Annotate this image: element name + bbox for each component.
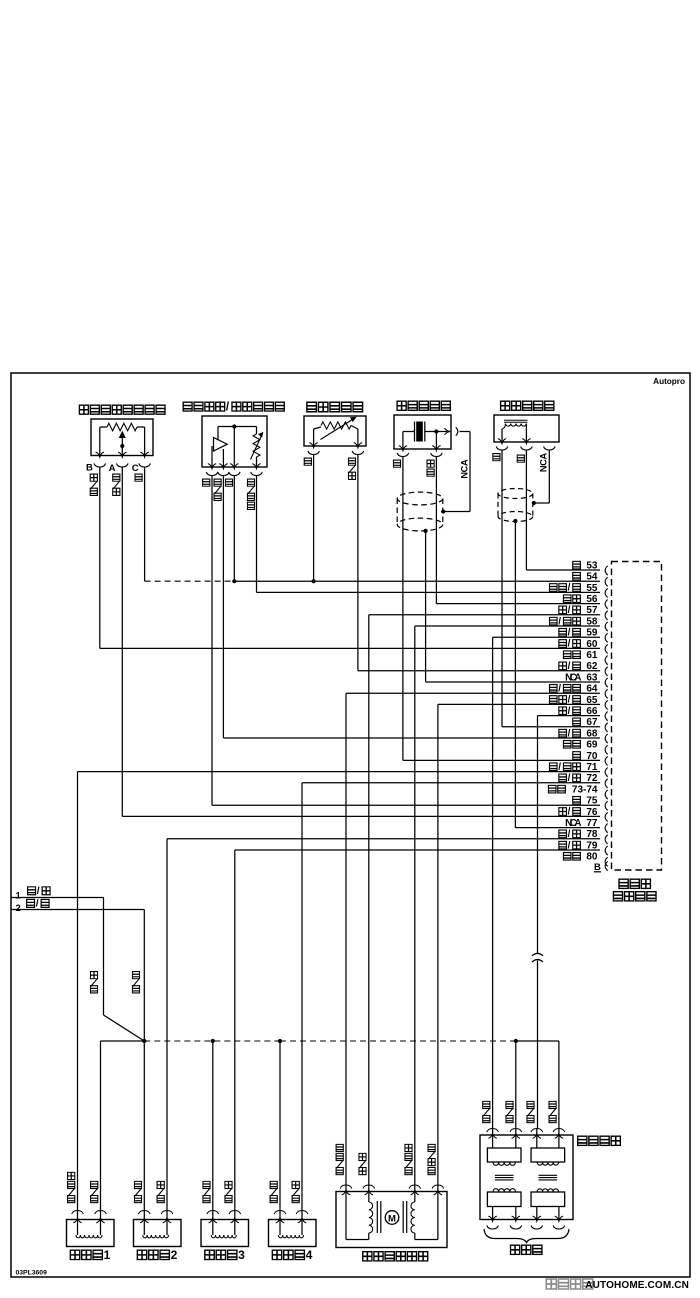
wire pin54 branch from coolant sensor pin1 xyxy=(313,455,315,582)
idle motor left winding xyxy=(346,1192,373,1240)
HV terminal arcs xyxy=(487,1225,565,1229)
svg-text:61: 61 xyxy=(586,650,598,661)
ECM pin 61 label 不用 xyxy=(563,650,598,661)
ignition coil right transformer T2 xyxy=(531,1135,565,1220)
ECM pin B label with underline xyxy=(594,862,601,873)
ECM pin 53 socket arc xyxy=(605,566,608,575)
MAP sensor U2 box xyxy=(202,416,267,467)
wire label shenlan (dark blue) xyxy=(427,460,434,476)
ECM pin 64 socket arc xyxy=(605,689,608,698)
injector 1 solenoid coil xyxy=(76,1220,102,1238)
wire pin53 red from speed sensor xyxy=(526,450,600,570)
knock sensor label (bao-zhen-chuan-gan-qi) xyxy=(397,401,450,410)
thermistor resistor inside xyxy=(314,417,358,446)
wire label hei (black) MAP pin 3 xyxy=(225,479,232,486)
ECM pin 60 socket arc xyxy=(605,644,608,653)
wire pin72 white/green to injector4 pin2 xyxy=(302,783,600,1210)
ignition coil connector sockets xyxy=(487,1129,565,1133)
coolant sensor pin arrows xyxy=(309,443,362,448)
svg-text:C: C xyxy=(539,459,549,466)
injector 3 connector sockets xyxy=(207,1211,241,1215)
shielded cable cylinder around speed sensor wires xyxy=(498,489,533,522)
MAP sensor internal top wire with junction xyxy=(218,424,257,428)
wire pin55 magenta/black from MAP pin4 xyxy=(257,476,601,593)
svg-text:Autopro: Autopro xyxy=(653,377,685,386)
idle control motor name label xyxy=(363,1252,428,1261)
wire label bai (white) xyxy=(493,453,500,460)
ECM pin 72 label 白/绿 xyxy=(559,773,598,784)
injector 2 wire stubs to box xyxy=(144,1211,167,1220)
injector 3 wire label 棕/白 xyxy=(203,1181,210,1202)
injector 2 pin arrows xyxy=(140,1218,171,1223)
ECM pin 78 socket arc xyxy=(605,835,608,844)
input wire 1 zi/huang (violet/yellow) xyxy=(11,898,144,1042)
ignition coil input pin arrows xyxy=(488,1133,563,1138)
bus drop to ignition coil pin2 xyxy=(515,1041,517,1128)
ignition coil HV output arrows xyxy=(488,1216,563,1221)
bus drop to injector4 pin1 xyxy=(279,1041,281,1210)
ECM pin 55 label 玫红/黑 xyxy=(549,583,598,594)
pressure transducer triangle xyxy=(212,427,227,468)
idle motor wire label tianlan/hei xyxy=(428,1144,435,1174)
svg-text:C: C xyxy=(132,463,139,474)
injector 3 wire label 黑/绿 xyxy=(225,1181,232,1202)
idle motor pin arrows xyxy=(342,1190,442,1195)
engine control module name label (fa-dong-ji kong-zhi-mo-kuai) xyxy=(613,879,656,901)
ECM pin 68 label 红/黑 xyxy=(559,728,598,739)
ECM pin 56 label 深蓝 xyxy=(563,594,598,605)
throttle position sensor label (jie-qi-men-wei-zhi-chuan-gan-qi) xyxy=(79,405,165,414)
wire pin79 black/green to injector3 pin2 xyxy=(235,850,600,1210)
ECM pin 70 socket arc xyxy=(605,756,608,765)
bus drop to injector3 pin1 xyxy=(212,1041,214,1210)
wire pin63 NCA from knock sensor shield drain xyxy=(426,531,600,682)
shielded cable cylinder around knock sensor wires xyxy=(397,492,443,531)
wire pin58 white/darkblue to idle motor pin3 xyxy=(415,626,600,1185)
connector sockets under coolant sensor xyxy=(308,451,364,455)
ECM pin 69 socket arc xyxy=(605,745,608,754)
injector 2 connector sockets xyxy=(139,1211,173,1215)
wire pin67 white from speed sensor pin1 xyxy=(502,450,600,727)
ECM pin 78 label 棕/绿 xyxy=(559,829,598,840)
vertical wire label zi/huang on riser xyxy=(90,971,97,992)
speed sensor pin arrows xyxy=(498,439,531,444)
coil wire label zong/bai pin4 xyxy=(549,1101,556,1122)
ECM pin 58 label 白/深蓝 xyxy=(549,616,598,627)
throttle sensor pin arrows B A C xyxy=(96,452,149,457)
wire pin76 green/black from throttle sensor A xyxy=(122,467,600,816)
svg-text:M: M xyxy=(388,1213,396,1224)
ECM pin 80 socket arc xyxy=(605,857,608,866)
injector 4 pin arrows xyxy=(276,1218,306,1223)
NCA wire to speed sensor shield xyxy=(532,450,550,505)
wire pin57 grey/green to idle motor pin2 xyxy=(369,615,600,1185)
ECM pin 62 socket arc xyxy=(605,667,608,676)
autohome watermark qi-che-zhi-jia xyxy=(546,1279,593,1289)
injector 4 name label xyxy=(272,1248,312,1262)
svg-text:4: 4 xyxy=(306,1248,313,1262)
speed sensor shield drain dot xyxy=(513,519,517,523)
splice bus brown/white to injectors and coil xyxy=(101,1040,559,1042)
wire label hong/hei (red/black) MAP pin 2 xyxy=(214,479,221,500)
ECM pin 56 socket arc xyxy=(605,600,608,609)
ECM pin 63 socket arc xyxy=(605,678,608,687)
inductive pickup coil inside speed sensor xyxy=(502,420,528,442)
ignition coil left transformer T1 xyxy=(487,1135,521,1220)
svg-text:1: 1 xyxy=(16,891,22,902)
connector sockets under MAP sensor xyxy=(206,472,262,476)
ECM pin 76 label 绿/黑 xyxy=(559,807,598,818)
idle motor right winding xyxy=(411,1192,438,1240)
svg-text:/: / xyxy=(226,401,230,413)
wire label zi (violet) xyxy=(393,460,400,467)
injector 3 box xyxy=(201,1220,249,1247)
injector 1 wire label 棕/白 xyxy=(91,1181,98,1202)
ECM pin 57 label 灰/绿 xyxy=(559,605,598,616)
ECM pin 64 label 白/玫红 xyxy=(549,683,598,694)
idle motor wire label bai/meihong xyxy=(336,1144,343,1174)
svg-text:AUTOHOME.COM.CN: AUTOHOME.COM.CN xyxy=(585,1280,689,1291)
connector sockets under speed sensor xyxy=(496,446,555,450)
svg-text:A: A xyxy=(459,459,469,466)
injector 4 solenoid coil xyxy=(279,1220,304,1238)
injector 4 box xyxy=(269,1220,317,1247)
injector 1 box xyxy=(67,1220,115,1247)
ECM pin 54 socket arc xyxy=(605,577,608,586)
input 2 color label zong/hei xyxy=(27,899,50,910)
ECM pin 71 label 黑/深蓝 xyxy=(549,762,598,773)
idle motor right core lines xyxy=(403,1201,407,1233)
ECM pin 53 label 红 xyxy=(573,560,598,571)
ECM pin 79 socket arc xyxy=(605,846,608,855)
injector 1 connector sockets xyxy=(72,1211,107,1215)
ECM pin 79 label 黑/绿 xyxy=(559,840,598,851)
svg-text:2: 2 xyxy=(16,903,21,914)
connector sockets under knock sensor xyxy=(397,453,442,457)
ignition coil name label dian-huo-xian-quan xyxy=(578,1136,621,1145)
knock sensor pin wires xyxy=(403,432,437,450)
ECM pin 68 socket arc xyxy=(605,734,608,743)
wire pin68 red/black from MAP pin2 xyxy=(223,476,600,739)
injector 2 box xyxy=(134,1220,182,1247)
air temp variable resistor xyxy=(251,427,263,468)
ECM pin 58 socket arc xyxy=(605,622,608,631)
ECM pin 80 label 不用 xyxy=(563,852,598,863)
ECM pin 77 socket arc xyxy=(605,824,608,833)
ECM pin B socket arc xyxy=(605,861,608,870)
wire label hei (black) pin C xyxy=(135,474,142,481)
MAP/intake air temp sensor label (jin-qi-ya-li/wen-du-chuan-gan-qi) xyxy=(183,401,284,413)
wire pin71 black/darkblue to injector1 pin1 xyxy=(78,772,601,1210)
high voltage lines label gao-ya-xian xyxy=(510,1245,542,1254)
ECM pin 77 label NCA xyxy=(565,818,598,829)
NCA label vertical xyxy=(459,459,469,479)
crank speed sensor label (zhuan-su-chuan-gan-qi) xyxy=(501,401,554,410)
ECM pin 75 label 棕 xyxy=(573,796,598,807)
ECM pin 63 label NCA xyxy=(565,672,598,683)
wire pin54 branch from MAP pin3 xyxy=(233,476,235,582)
wire pin70 violet from knock sensor pin1 xyxy=(403,457,600,761)
ECM pin 69 label 不用 xyxy=(563,740,598,751)
bus drop to injector1 pin2 xyxy=(100,1041,102,1210)
ECM pin 59 socket arc xyxy=(605,633,608,642)
wire label lv/hei (green/black) pin A xyxy=(113,474,120,495)
wire label hong/lv (red/green) pin B xyxy=(90,474,97,495)
idle motor wire label hui/lv xyxy=(359,1153,366,1174)
ECM pin 66 label 黄/黑 xyxy=(559,706,598,717)
wire label meihong/hei (magenta/black) MAP pin 4 xyxy=(247,479,254,509)
svg-text:69: 69 xyxy=(586,740,598,751)
frame border xyxy=(11,373,690,1277)
ECM pin 71 socket arc xyxy=(605,768,608,777)
NCA label vertical xyxy=(539,453,549,473)
injector 4 wire stubs to box xyxy=(280,1211,302,1220)
injector 4 wire label 棕/白 xyxy=(270,1181,277,1202)
wire pin78 brown/green to injector2 pin2 xyxy=(167,839,600,1210)
svg-text:C: C xyxy=(459,465,469,472)
injector 1 wire label 黑/深蓝 xyxy=(68,1172,75,1202)
ECM pin 75 socket arc xyxy=(605,801,608,810)
svg-text:A: A xyxy=(539,453,549,460)
injector 3 name label xyxy=(205,1248,245,1262)
svg-text:N: N xyxy=(539,465,549,472)
svg-text:N: N xyxy=(459,472,469,479)
wire pin62 grey/white from coolant sensor pin2 xyxy=(358,455,600,671)
vertical wire label zong/hei on riser xyxy=(132,971,139,992)
idle motor wire stubs xyxy=(346,1185,438,1192)
wire label zong (brown) MAP pin 1 xyxy=(203,479,210,486)
idle motor M symbol xyxy=(385,1211,399,1225)
wire pin56 dark blue from knock sensor xyxy=(436,457,600,604)
wire label hong (red) xyxy=(517,455,524,462)
injector 3 solenoid coil xyxy=(211,1220,236,1238)
ECM pin 70 label 紫 xyxy=(573,751,598,762)
ECM pin 67 label 白 xyxy=(573,717,598,728)
ECM pin 61 socket arc xyxy=(605,656,608,665)
wire pin64 white/magenta to idle motor pin1 xyxy=(346,693,600,1184)
svg-text:3: 3 xyxy=(238,1248,245,1262)
injector 3 pin arrows xyxy=(209,1218,239,1223)
pin letters B A C xyxy=(86,463,139,474)
wire label hei (black) xyxy=(304,458,311,465)
wire pin75 brown from MAP pin1 xyxy=(212,476,600,806)
bus drop to ignition coil pin4 xyxy=(558,1041,560,1128)
shield drain junction dot xyxy=(424,529,428,533)
svg-text:/: / xyxy=(37,886,40,897)
injector 1 wire stubs to box xyxy=(78,1211,101,1220)
MAP sensor pin arrows xyxy=(208,464,261,469)
svg-text:1: 1 xyxy=(104,1248,111,1262)
junction wire to pin 3 xyxy=(233,427,235,468)
coil wire label zong/hei pin1 xyxy=(483,1101,490,1122)
wire pin65 skyblue/black to idle motor pin4 xyxy=(438,704,600,1184)
ECM pin 73-74 socket arc xyxy=(605,790,608,799)
ECM pin 65 socket arc xyxy=(605,700,608,709)
injector 2 wire label 棕/绿 xyxy=(157,1181,164,1202)
coolant temp sensor label (shui-wen-chuan-gan-qi) xyxy=(307,402,363,412)
svg-text:2: 2 xyxy=(171,1248,178,1262)
ECM pin 55 socket arc xyxy=(605,588,608,597)
svg-text:80: 80 xyxy=(586,852,598,863)
inline connector on yellow/black coil wire xyxy=(532,953,543,1128)
bus drop to injector2 pin1 xyxy=(143,1041,145,1210)
svg-text:/: / xyxy=(36,899,39,910)
potentiometer R1 inside throttle sensor xyxy=(100,423,145,455)
ECM pin 57 socket arc xyxy=(605,611,608,620)
ECM pin 60 label 红/绿 xyxy=(559,639,598,650)
injector 2 solenoid coil xyxy=(143,1220,169,1238)
knock sensor pin arrows xyxy=(399,446,441,451)
injector 2 wire label 棕/白 xyxy=(134,1181,141,1202)
ECM pin 66 socket arc xyxy=(605,712,608,721)
svg-text:B: B xyxy=(86,463,93,474)
potentiometer wiper arrow xyxy=(120,432,126,456)
input wire 2 zong/hei (brown/black) xyxy=(11,910,144,1042)
ECM pin 65 label 天蓝/黑 xyxy=(549,695,598,706)
wire label hui/bai (grey/white) xyxy=(348,458,355,479)
high voltage lines brace xyxy=(484,1229,569,1243)
svg-text:A: A xyxy=(109,463,116,474)
svg-text:03PL3609: 03PL3609 xyxy=(16,1270,48,1277)
piezo element inside knock sensor xyxy=(403,422,448,442)
injector 3 wire stubs to box xyxy=(213,1211,235,1220)
ignition coil wire stubs xyxy=(493,1129,559,1136)
idle control motor connector sockets xyxy=(340,1185,444,1189)
ECM pin 72 socket arc xyxy=(605,779,608,788)
coolant temp sensor U3 box xyxy=(304,416,366,446)
idle motor left core lines xyxy=(377,1201,381,1233)
idle motor wire label bai/shenlan xyxy=(405,1144,412,1174)
wire pin54 black splice bus xyxy=(145,467,600,583)
idle control motor box xyxy=(336,1192,447,1248)
injector 2 name label xyxy=(137,1248,177,1262)
injector 1 name label xyxy=(70,1248,110,1262)
wire pin59 brown/black to ignition coil pin1 xyxy=(493,637,600,1128)
coil wire label zong/hei pin3 xyxy=(527,1101,534,1122)
input 1 color label zi/huang xyxy=(28,886,51,897)
NCA wire to knock sensor shield xyxy=(441,432,470,514)
ECM pin 76 socket arc xyxy=(605,812,608,821)
ECM pin 67 socket arc xyxy=(605,723,608,732)
coil wire label zong/bai pin2 xyxy=(506,1101,513,1122)
knock sensor NCA output arrow and socket xyxy=(445,427,471,435)
injector 4 connector sockets xyxy=(274,1211,308,1215)
speed sensor U5 box xyxy=(494,415,559,442)
svg-text:73-74: 73-74 xyxy=(572,784,598,795)
connector sockets under throttle sensor xyxy=(94,463,150,467)
splice junction dots on bus xyxy=(142,1039,518,1043)
injector 1 pin arrows xyxy=(73,1218,104,1223)
ECM pin 62 label 灰/白 xyxy=(559,661,598,672)
throttle position sensor U1 box xyxy=(91,419,153,456)
knock sensor U4 box xyxy=(394,415,451,449)
ECM pin 73-74 label 不用 xyxy=(548,784,598,795)
engine control module dashed connector box xyxy=(612,562,662,871)
wire pin66 yellow/black to ignition coil pin3 via inline connector xyxy=(538,716,601,953)
ECM pin 54 label 黑 xyxy=(573,572,598,583)
wire pin60 red/green from throttle sensor B xyxy=(100,467,600,648)
injector 4 wire label 白/绿 xyxy=(292,1181,299,1202)
ignition coil box xyxy=(480,1135,573,1220)
wire pin77 NCA from speed sensor shield drain xyxy=(515,521,600,828)
ECM pin 59 label 棕/黑 xyxy=(559,627,598,638)
